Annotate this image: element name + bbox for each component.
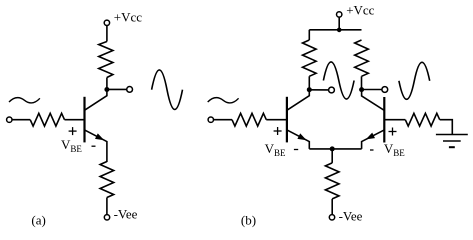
resistor R1 base (a) — [30, 113, 64, 126]
node top rail junction dot (b) — [337, 28, 342, 33]
wire emitter node to R8 (b) — [331, 149, 333, 163]
input terminal (b) — [208, 117, 213, 122]
svg-text:-Vee: -Vee — [339, 209, 363, 224]
wire collector node to R2 (a) — [106, 78, 108, 90]
right output terminal (b) — [382, 87, 388, 93]
wire collector Q2 node to R5 (b) — [308, 76, 310, 89]
resistor R3 emitter (a) — [100, 162, 114, 198]
resistor R5 left collector load (b) — [303, 40, 317, 76]
wire R5 to top rail (b) — [308, 30, 310, 40]
wire rail to +Vcc terminal (b) — [338, 17, 340, 30]
transistor Q1 (a) — [85, 90, 107, 163]
ground symbol (b) — [436, 135, 468, 148]
svg-text:(a): (a) — [31, 212, 45, 227]
wire R8 to -Vee terminal (b) — [331, 199, 333, 215]
wire R7 to ground (b) — [440, 120, 453, 135]
label - polarity left (b) — [294, 149, 298, 151]
wire R1 to base of Q1 (a) — [65, 119, 85, 121]
svg-text:VBE: VBE — [265, 141, 286, 158]
resistor R6 right collector load (b) — [355, 40, 369, 76]
wire input terminal to R4 (b) — [214, 119, 233, 121]
svg-text:VBE: VBE — [384, 141, 405, 158]
resistor R4 base (b) — [232, 113, 266, 126]
-Vee terminal (a) — [104, 215, 109, 220]
+Vcc terminal (a) — [104, 20, 109, 25]
emitter join wire (b) — [309, 148, 361, 150]
wire R4 to base of Q2 (b) — [266, 119, 287, 121]
label - polarity right (b) — [370, 149, 374, 151]
AC input source squiggle (a) — [9, 98, 40, 103]
node collector Q2 junction dot (b) — [307, 87, 312, 92]
wire collector Q2 to left output terminal (b) — [309, 89, 328, 91]
transistor Q3 right (b) — [362, 90, 385, 149]
transistor Q2 left (b) — [287, 90, 309, 149]
label + polarity left (b) — [274, 127, 282, 135]
wire base Q3 to R7 (b) — [384, 119, 405, 121]
wire R2 to +Vcc terminal (a) — [106, 26, 108, 42]
wire input terminal to R1 (a) — [12, 119, 30, 121]
differential output sine waveform between loads (b) — [323, 62, 354, 99]
svg-text:VBE: VBE — [61, 137, 82, 154]
left output terminal (b) — [329, 87, 335, 93]
resistor R2 collector load (a) — [99, 42, 113, 78]
input terminal (a) — [7, 117, 12, 122]
svg-text:(b): (b) — [241, 212, 256, 227]
svg-text:+Vcc: +Vcc — [114, 9, 142, 24]
-Vee terminal (b) — [329, 215, 334, 220]
+Vcc terminal (b) — [337, 12, 342, 17]
label + polarity (a) — [69, 127, 77, 135]
resistor R8 tail (b) — [325, 163, 339, 199]
node collector Q3 junction dot (b) — [359, 87, 364, 92]
wire collector node to output terminal (a) — [107, 88, 127, 90]
output sine waveform (a) — [152, 70, 183, 110]
output terminal (a) — [127, 87, 133, 93]
svg-text:-Vee: -Vee — [114, 206, 138, 221]
label + polarity right (b) — [389, 128, 397, 136]
wire R6 to collector node Q3 (b) — [361, 76, 363, 89]
resistor R7 right base (b) — [405, 113, 439, 126]
wire R3 to -Vee terminal (a) — [106, 198, 108, 215]
right output sine waveform inverted (b) — [399, 62, 430, 99]
node collector Q1 junction dot (a) — [104, 87, 109, 92]
top supply rail wire (b) — [309, 29, 361, 31]
svg-text:+Vcc: +Vcc — [346, 3, 374, 18]
AC input source squiggle (b) — [208, 98, 239, 103]
label - polarity (a) — [92, 145, 96, 147]
node emitter junction dot (b) — [330, 146, 335, 151]
wire collector Q3 to right output terminal (b) — [362, 89, 382, 91]
